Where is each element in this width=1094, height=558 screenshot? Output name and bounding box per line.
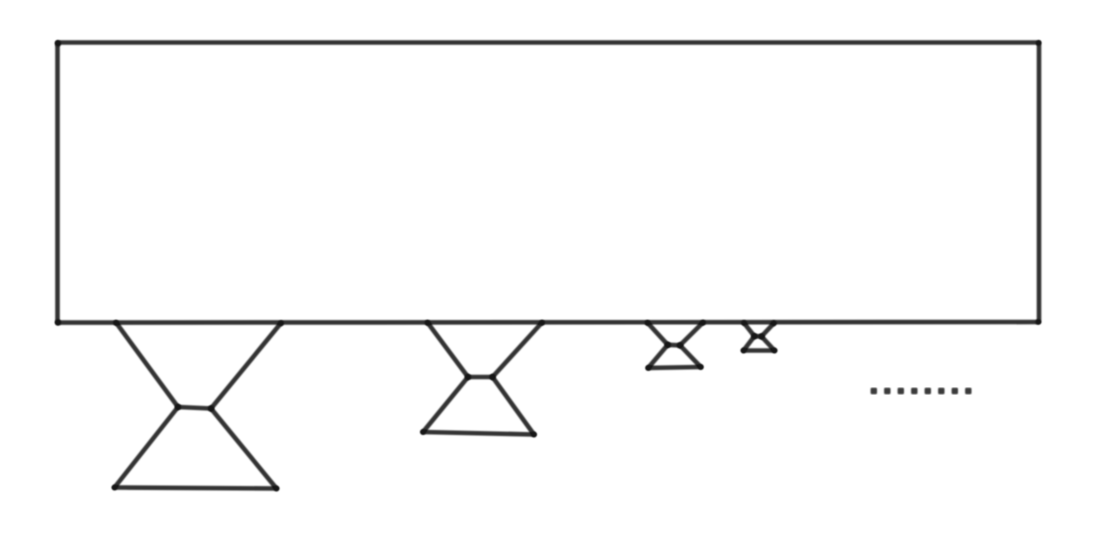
hourglass H1 lower-left segment (wire)	[115, 407, 179, 488]
hourglass H2 lower-right segment (wire)	[493, 377, 535, 435]
hourglass H2 base (wire)	[423, 432, 534, 435]
box top-right corner junction	[1036, 40, 1041, 45]
hourglass H4 upper-right segment (wire)	[762, 323, 774, 336]
hourglass H4 top-left node	[741, 320, 747, 326]
box bottom-left corner junction	[55, 319, 61, 325]
box top edge (wire)	[58, 40, 1040, 45]
hourglass H2 base-left node	[420, 429, 426, 435]
hourglass H1 base (wire)	[115, 488, 277, 489]
hourglass H4 upper-left segment (wire)	[744, 323, 754, 336]
box right edge (wire)	[1037, 43, 1042, 323]
hourglass H3 top-right node	[700, 320, 706, 326]
hourglass H2 base-right node	[531, 432, 537, 438]
hourglass H4 top-right node	[771, 320, 777, 326]
hourglass H2 upper-left segment (wire)	[428, 323, 469, 378]
hourglass H1 waist-left node	[175, 404, 181, 410]
hourglass H3 base (wire)	[648, 365, 701, 370]
hourglass H3 waist-right node	[677, 342, 683, 348]
hourglass H4 base (wire)	[744, 348, 775, 353]
hourglass H1 upper-left segment (wire)	[116, 323, 178, 408]
hourglass H4 base-left node	[741, 348, 747, 354]
hourglass H3 waist-left node	[665, 342, 671, 348]
hourglass H2 top-right node	[539, 320, 545, 326]
hourglass H4 lower-left segment (wire)	[744, 336, 755, 350]
hourglass H3 lower-left segment (wire)	[648, 345, 668, 368]
hourglass H4 lower-right segment (wire)	[762, 336, 775, 350]
hourglass H4 waist bar (wire)	[754, 334, 761, 339]
hourglass H3 upper-right segment (wire)	[680, 323, 703, 346]
hourglass H1 top-left node	[113, 320, 119, 326]
box bottom edge (wire)	[58, 320, 1040, 325]
hourglass H1 waist bar (wire)	[178, 407, 211, 409]
hourglass H3 upper-left segment (wire)	[648, 323, 668, 345]
hourglass H1 waist-right node	[208, 405, 214, 411]
hourglass H2 waist-left node	[465, 374, 471, 380]
hourglass H4 base-right node	[772, 348, 778, 354]
hourglass H3 waist bar (wire)	[668, 342, 680, 347]
hourglass H3 lower-right segment (wire)	[680, 345, 701, 367]
box left edge (wire)	[55, 43, 60, 323]
hourglass H1 base-left node	[112, 485, 118, 491]
hourglass H3 top-left node	[645, 320, 651, 326]
hourglass H3 base-left node	[645, 365, 651, 371]
hourglass H2 waist bar (wire)	[468, 375, 493, 380]
hourglass H1 lower-right segment (wire)	[211, 409, 277, 489]
ellipsis dotted continuation line	[871, 388, 972, 394]
hourglass H2 top-left node	[425, 320, 431, 326]
hourglass H2 waist-right node	[489, 374, 495, 380]
hourglass H4 waist-left node	[751, 333, 757, 339]
hourglass H1 top-right node	[278, 320, 284, 326]
hourglass H4 waist-right node	[758, 333, 764, 339]
hourglass H2 upper-right segment (wire)	[493, 323, 543, 378]
hourglass H3 base-right node	[698, 364, 704, 370]
box top-left corner junction	[55, 40, 61, 46]
hourglass H2 lower-left segment (wire)	[423, 377, 468, 432]
hourglass H1 upper-right segment (wire)	[211, 323, 281, 409]
box bottom-right corner junction	[1035, 319, 1040, 324]
hourglass H1 base-right node	[274, 486, 280, 492]
